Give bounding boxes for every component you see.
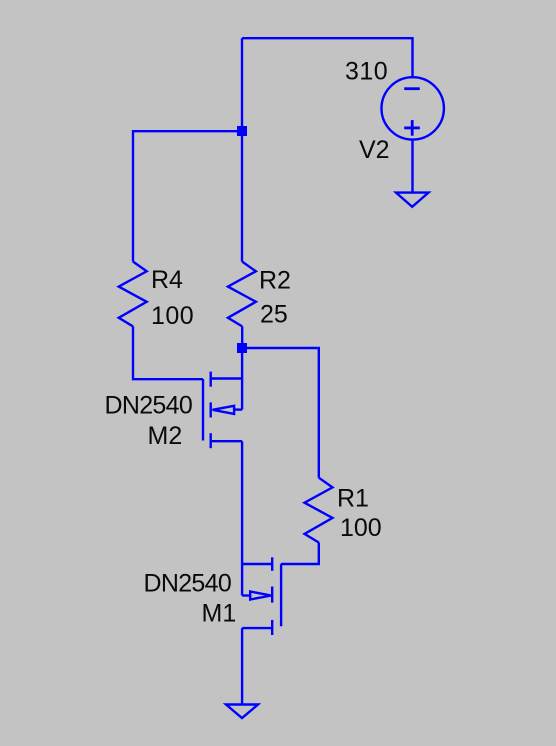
wire R1 bottom lead	[281, 543, 319, 565]
svg-text:DN2540: DN2540	[105, 392, 193, 420]
svg-text:310: 310	[345, 58, 388, 86]
svg-text:R4: R4	[151, 266, 183, 294]
resistor R2	[228, 262, 256, 327]
resistor R1	[305, 478, 333, 543]
svg-text:100: 100	[340, 514, 382, 542]
junction node A	[237, 126, 247, 136]
wire R4 bottom lead	[133, 326, 203, 379]
transistor M1 (DN2540 depletion NMOS, mirrored)	[242, 557, 281, 635]
wire node A to left branch	[134, 130, 242, 132]
wire middle vertical from top rail to R2	[241, 38, 243, 261]
ground below M1	[226, 705, 258, 719]
wire M2 source to M1 drain	[241, 441, 243, 564]
wire V2 top lead	[411, 38, 412, 78]
svg-text:V2: V2	[359, 136, 390, 164]
svg-text:M1: M1	[202, 600, 237, 628]
wire V2 bottom lead	[411, 140, 413, 193]
svg-text:M2: M2	[148, 422, 183, 450]
wire node B to R1 branch	[242, 347, 317, 349]
resistor R4	[119, 262, 147, 327]
wire M1 source to ground	[241, 628, 243, 704]
wire R1 top lead	[318, 348, 319, 478]
voltage source V2	[382, 77, 444, 139]
svg-text:R1: R1	[337, 485, 369, 513]
transistor M2 (DN2540 depletion NMOS)	[203, 348, 242, 448]
junction node B	[237, 343, 247, 353]
svg-text:25: 25	[260, 301, 288, 329]
wire left vertical to R4	[133, 131, 134, 261]
ground below V2	[396, 193, 429, 207]
wire top rail from node A to V2	[242, 37, 413, 39]
svg-text:DN2540: DN2540	[144, 570, 232, 598]
wire R2 bottom lead to node B	[241, 326, 243, 348]
svg-text:100: 100	[151, 302, 194, 330]
svg-text:R2: R2	[259, 267, 291, 295]
